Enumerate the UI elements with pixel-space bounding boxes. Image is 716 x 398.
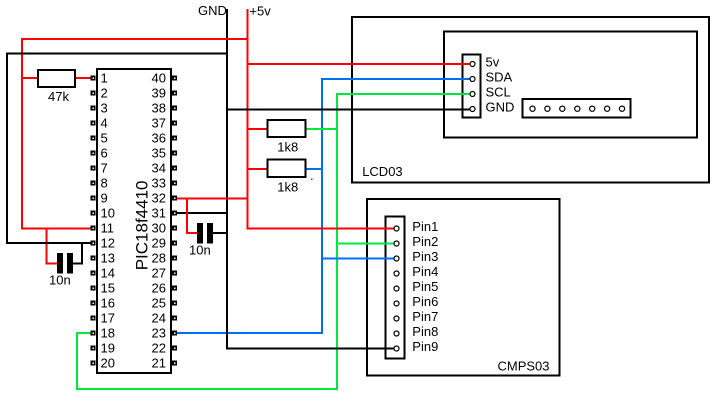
svg-text:33: 33 xyxy=(152,176,166,191)
capacitor C1 10n plates xyxy=(57,253,63,274)
svg-text:34: 34 xyxy=(152,161,166,176)
PIC18f4410 IC U1 body xyxy=(97,69,171,373)
CMPS03 connector pin circles Pin1-Pin9 xyxy=(394,226,399,231)
wire junction GND vertical over SDA pin23 wire xyxy=(226,332,228,334)
svg-text:14: 14 xyxy=(101,266,115,281)
svg-text:32: 32 xyxy=(152,191,166,206)
LCD03 4-pin connector J1 xyxy=(462,55,480,118)
svg-text:CMPS03: CMPS03 xyxy=(498,358,550,373)
svg-text:6: 6 xyxy=(101,146,108,161)
wire +5v to resistor R2 1k8 xyxy=(249,128,267,130)
svg-text:Pin1: Pin1 xyxy=(412,219,438,234)
svg-text:Pin7: Pin7 xyxy=(412,309,438,324)
svg-text:Pin4: Pin4 xyxy=(412,264,438,279)
wire junction GND pin12 wire over +5v capacitor branch xyxy=(45,242,48,244)
wire C1 left plate to +5v branch xyxy=(46,262,58,264)
wire GND left vertical xyxy=(6,53,8,245)
svg-text:+5v: +5v xyxy=(249,3,271,18)
svg-text:Pin8: Pin8 xyxy=(412,324,438,339)
svg-text:39: 39 xyxy=(152,86,166,101)
svg-text:17: 17 xyxy=(101,311,115,326)
svg-text:29: 29 xyxy=(152,236,166,251)
LCD03 7-hole header strip xyxy=(523,99,631,118)
svg-text:1: 1 xyxy=(101,71,108,86)
wire SDA vertical xyxy=(321,78,323,334)
svg-text:36: 36 xyxy=(152,131,166,146)
LCD03 module outer box xyxy=(352,17,709,182)
wire +5v to resistor R3 1k8 xyxy=(249,168,267,170)
svg-text:SCL: SCL xyxy=(486,84,511,99)
wire SCL vertical xyxy=(336,93,338,390)
IC U1 pin squares right side pins 40-21 xyxy=(172,76,177,81)
svg-text:18: 18 xyxy=(101,326,115,341)
svg-text:Pin6: Pin6 xyxy=(412,294,438,309)
wire PIC pin 32 to +5v vertical xyxy=(177,198,247,200)
svg-text:22: 22 xyxy=(152,341,166,356)
wire resistor R3 to SDA vertical xyxy=(307,168,322,170)
wire SCL bottom horizontal xyxy=(76,388,338,390)
svg-text:3: 3 xyxy=(101,101,108,116)
svg-text:13: 13 xyxy=(101,251,115,266)
svg-text:GND: GND xyxy=(198,3,227,18)
wire SCL to LCD03 SCL pin xyxy=(336,93,470,95)
wire GND branch down to capacitor C1 xyxy=(81,243,83,264)
svg-text:PIC18f4410: PIC18f4410 xyxy=(133,181,152,271)
wire +5v to LCD03 5v pin xyxy=(249,63,470,65)
wire SCL to CMPS03 Pin2 xyxy=(336,243,394,245)
CMPS03 9-pin connector J2 xyxy=(386,216,405,358)
wire +5v vertical to resistor R1 47k xyxy=(23,77,37,79)
wire GND to CMPS03 Pin9 xyxy=(226,348,394,350)
svg-text:12: 12 xyxy=(101,236,115,251)
capacitor C2 10n plates xyxy=(197,223,203,244)
svg-text:Pin3: Pin3 xyxy=(412,249,438,264)
svg-text:19: 19 xyxy=(101,341,115,356)
stray red dot artifact xyxy=(311,179,313,181)
svg-text:Pin2: Pin2 xyxy=(412,234,438,249)
wire +5v left vertical xyxy=(21,38,23,229)
svg-text:5v: 5v xyxy=(486,54,500,69)
IC U1 pin squares left side pins 1-20 xyxy=(91,76,96,81)
svg-text:24: 24 xyxy=(152,311,166,326)
svg-text:8: 8 xyxy=(101,176,108,191)
svg-text:10: 10 xyxy=(101,206,115,221)
wire junction GND pin9 wire over SCL vertical xyxy=(336,348,339,350)
svg-text:26: 26 xyxy=(152,281,166,296)
wire +5v top horizontal to left side xyxy=(21,38,249,40)
svg-text:21: 21 xyxy=(152,356,166,371)
wire +5v to CMPS03 Pin1 xyxy=(247,228,394,230)
svg-text:35: 35 xyxy=(152,146,166,161)
wire junction GND horizontal over +5v left vertical xyxy=(21,53,24,55)
wire SDA to CMPS03 Pin3 xyxy=(321,258,394,260)
svg-text:GND: GND xyxy=(486,99,515,114)
wire C1 right plate to GND branch xyxy=(73,262,83,264)
svg-text:40: 40 xyxy=(152,71,166,86)
wire GND to PIC pin 12 xyxy=(6,242,93,244)
svg-text:1k8: 1k8 xyxy=(277,180,298,195)
svg-text:10n: 10n xyxy=(49,272,71,287)
svg-text:9: 9 xyxy=(101,191,108,206)
svg-text:16: 16 xyxy=(101,296,115,311)
wire GND top horizontal to left side xyxy=(6,53,228,55)
LCD03 7 header hole circles xyxy=(530,106,535,111)
svg-text:SDA: SDA xyxy=(486,69,513,84)
svg-text:31: 31 xyxy=(152,206,166,221)
svg-text:28: 28 xyxy=(152,251,166,266)
svg-text:2: 2 xyxy=(101,86,108,101)
resistor R2 1k8 body xyxy=(268,120,306,137)
svg-text:Pin5: Pin5 xyxy=(412,279,438,294)
svg-text:25: 25 xyxy=(152,296,166,311)
wire PIC pin 23 to SDA vertical xyxy=(177,332,323,334)
wire +5v branch down to capacitor C1 xyxy=(46,229,48,265)
LCD03 inner board box xyxy=(444,32,697,138)
wire +5v main vertical xyxy=(247,9,249,230)
CMPS03 module outer box xyxy=(367,199,560,376)
svg-text:5: 5 xyxy=(101,131,108,146)
resistor R1 47k body xyxy=(38,70,75,87)
svg-text:Pin9: Pin9 xyxy=(412,339,438,354)
wire GND main vertical xyxy=(226,9,228,350)
wire +5v branch down to capacitor C2 xyxy=(186,199,188,234)
wire SCL left vertical xyxy=(76,332,78,390)
svg-text:4: 4 xyxy=(101,116,108,131)
svg-text:20: 20 xyxy=(101,356,115,371)
wire C2 right plate to GND vertical xyxy=(213,232,228,234)
wire resistor R2 to SCL vertical xyxy=(307,128,337,130)
svg-text:27: 27 xyxy=(152,266,166,281)
wire PIC pin 18 to SCL left vertical xyxy=(76,332,93,334)
svg-text:38: 38 xyxy=(152,101,166,116)
wire SDA to LCD03 SDA pin xyxy=(321,78,470,80)
svg-text:LCD03: LCD03 xyxy=(362,164,402,179)
wire C2 left plate to +5v branch xyxy=(186,232,197,234)
wire GND to LCD03 GND pin xyxy=(228,108,470,110)
svg-text:30: 30 xyxy=(152,221,166,236)
svg-text:47k: 47k xyxy=(48,89,69,104)
LCD03 connector pin circles 5v SDA SCL GND xyxy=(470,62,475,67)
svg-text:37: 37 xyxy=(152,116,166,131)
svg-text:1k8: 1k8 xyxy=(277,139,298,154)
svg-text:11: 11 xyxy=(101,221,115,236)
wire PIC pin 31 to GND vertical xyxy=(177,212,228,214)
wire +5v to PIC pin 11 xyxy=(21,228,93,230)
svg-text:15: 15 xyxy=(101,281,115,296)
wire resistor R1 to PIC pin 1 xyxy=(76,77,91,79)
svg-text:23: 23 xyxy=(152,326,166,341)
svg-text:7: 7 xyxy=(101,161,108,176)
resistor R3 1k8 body xyxy=(268,160,306,177)
svg-text:10n: 10n xyxy=(189,242,211,257)
